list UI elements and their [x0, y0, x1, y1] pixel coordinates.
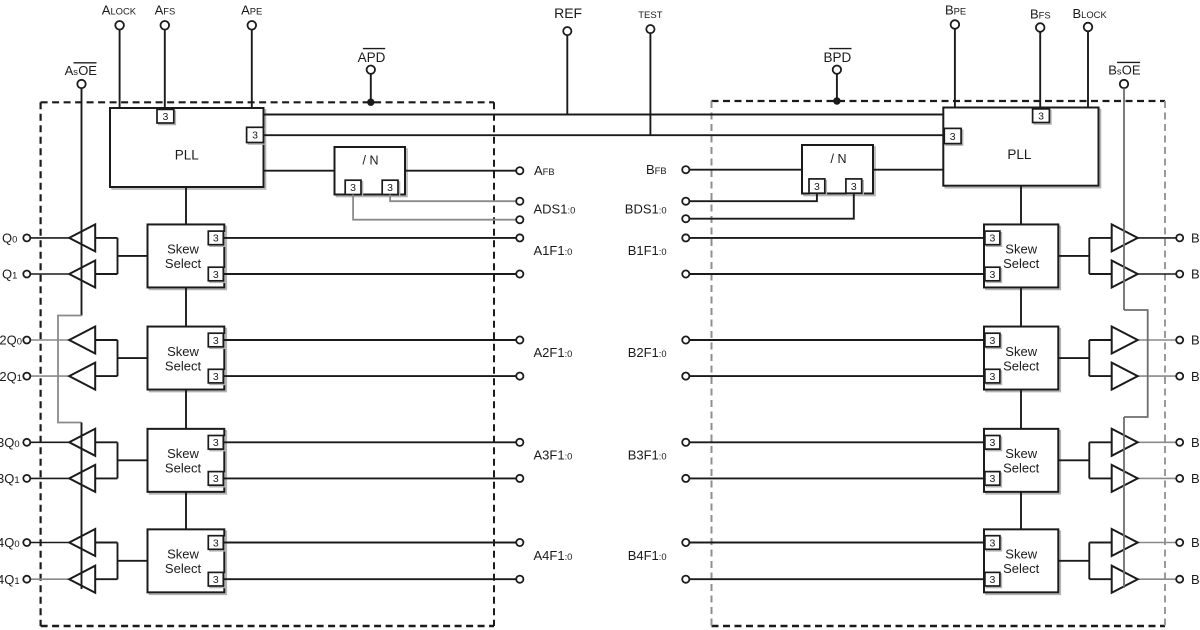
wire output A2Q1: [30, 375, 69, 377]
svg-text:Skew: Skew: [167, 344, 199, 359]
bus width marker 3 on PLL B left: [946, 130, 963, 145]
svg-text:4Q1: 4Q1: [0, 572, 20, 587]
svg-text:/ N: / N: [363, 154, 379, 168]
bus width marker 3 on /N B bottom left: [811, 181, 827, 195]
svg-text:3: 3: [950, 131, 956, 143]
svg-text:B4Q1: B4Q1: [1191, 572, 1200, 587]
svg-text:3: 3: [989, 371, 995, 383]
svg-text:A4F1:0: A4F1:0: [534, 548, 573, 563]
buffer A1 out1: [69, 261, 95, 288]
svg-text:3: 3: [989, 335, 995, 347]
skew select block B1: [986, 226, 1060, 289]
wire PLL A to divider: [264, 170, 335, 172]
pin A3Q0: [23, 439, 30, 446]
dashed box A (left device outline): [41, 102, 494, 626]
svg-text:3: 3: [989, 269, 995, 281]
pin BPE: [945, 3, 966, 108]
svg-text:Skew: Skew: [1005, 242, 1037, 257]
svg-text:3: 3: [1038, 111, 1044, 123]
wire B1F bit1: [689, 237, 984, 239]
wire B2F bit0: [689, 375, 984, 377]
wire skew A3 to skew A4: [185, 492, 187, 529]
pin A3F1: [516, 439, 523, 446]
svg-text:B4F1:0: B4F1:0: [628, 548, 667, 563]
svg-text:3: 3: [989, 233, 995, 245]
bus width marker 3 on /N A bottom right: [384, 182, 400, 196]
svg-text:Skew: Skew: [167, 242, 199, 257]
wire BsOE enable line upper: [1123, 88, 1125, 310]
svg-text:/ N: / N: [831, 152, 847, 166]
svg-text:3Q1: 3Q1: [0, 471, 20, 486]
pin TEST: [638, 10, 662, 33]
wire output A3Q0: [30, 441, 69, 443]
pin ADS1: [516, 198, 523, 205]
svg-text:3: 3: [213, 437, 219, 449]
buffer B2 out1: [1112, 363, 1138, 390]
svg-text:Select: Select: [1003, 561, 1040, 576]
pin BFS: [1030, 7, 1051, 109]
bus width marker 3 on skew A4 top: [210, 537, 225, 551]
bus width marker 3 on /N A bottom left: [347, 182, 363, 196]
bus width marker 3 on PLL A top: [159, 111, 176, 125]
wire AsOE enable line upper: [81, 88, 83, 315]
wire output B1Q1: [1138, 273, 1177, 275]
pin B1F1: [682, 234, 689, 241]
buffer A4 out0: [69, 529, 95, 556]
buffer A3 out1: [69, 465, 95, 492]
buffer B4 out0: [1112, 529, 1138, 556]
buffer B1 out1: [1112, 261, 1138, 288]
bus width marker 3 on skew B1 top: [987, 233, 1002, 247]
svg-text:B3Q1: B3Q1: [1191, 471, 1200, 486]
pin AsOE: [65, 63, 98, 88]
pin APD with overline: [358, 49, 386, 74]
svg-text:3: 3: [213, 537, 219, 549]
pin A1F0: [516, 270, 523, 277]
buffer B3 out0: [1112, 429, 1138, 456]
wire A4F bit1: [223, 542, 516, 544]
wire skew B4 to buffer bracket: [1058, 543, 1111, 580]
pin B3Q1: [1176, 475, 1183, 482]
svg-text:TEST: TEST: [638, 10, 662, 21]
divider block /N A: [337, 149, 408, 197]
bus width marker 3 on skew B4 top: [987, 537, 1002, 551]
pin A4Q1: [23, 576, 30, 583]
wire AsOE enable line lower: [81, 423, 83, 590]
svg-text:BDS1:0: BDS1:0: [625, 202, 667, 217]
pin BDS0: [682, 215, 689, 222]
wire output B4Q1: [1138, 578, 1177, 580]
wire A2F bit0: [223, 375, 516, 377]
pin A2Q0: [23, 337, 30, 344]
op block PLL A: [112, 110, 266, 189]
buffer A2 out0: [69, 327, 95, 354]
wire B4F bit0: [689, 578, 984, 580]
pin AFB: [516, 163, 554, 178]
wire A4F bit0: [223, 578, 516, 580]
wire PLL A to skew select 1: [185, 187, 187, 224]
pin BDS1: [682, 198, 689, 205]
bus width marker 3 on skew A1 top: [210, 233, 225, 247]
pin A2F0: [516, 373, 523, 380]
svg-text:3: 3: [989, 537, 995, 549]
wire B4F bit1: [689, 542, 984, 544]
wire ADS bit1 (gray): [390, 195, 516, 202]
svg-text:3: 3: [252, 130, 258, 142]
svg-text:AFB: AFB: [534, 163, 555, 178]
wire divider A to AFB pin: [405, 170, 516, 172]
wire output B3Q0: [1138, 441, 1177, 443]
wire skew A2 to buffer bracket: [95, 340, 147, 376]
bus width marker 3 on skew A1 bottom: [210, 269, 225, 283]
skew select block A2: [150, 329, 227, 392]
buffer B4 out1: [1112, 566, 1138, 593]
svg-text:Select: Select: [1003, 256, 1040, 271]
svg-text:3: 3: [989, 437, 995, 449]
wire PLL B to skew select 5: [1020, 186, 1022, 225]
pin A3Q1: [23, 475, 30, 482]
wire B3F bit1: [689, 441, 984, 443]
wire skew A3 to buffer bracket: [95, 442, 147, 478]
pin A3F0: [516, 475, 523, 482]
pin BFB: [646, 162, 689, 177]
svg-text:3: 3: [350, 182, 356, 194]
wire output B2Q0: [1138, 339, 1177, 341]
pin AFS: [155, 2, 176, 109]
pin B1Q1: [1176, 271, 1183, 278]
divider block /N B: [804, 147, 875, 196]
svg-text:Bs: Bs: [1108, 63, 1122, 78]
buffer A2 out1: [69, 363, 95, 390]
svg-text:B4Q0: B4Q0: [1191, 535, 1200, 550]
svg-text:AFS: AFS: [155, 2, 176, 17]
skew select block A4: [150, 531, 227, 594]
bus width marker 3 on skew B3 top: [987, 437, 1002, 451]
svg-text:A1F1:0: A1F1:0: [534, 243, 573, 258]
pin REF: [554, 5, 582, 35]
svg-text:3: 3: [851, 181, 857, 193]
svg-text:BPD: BPD: [824, 50, 852, 65]
svg-text:B3F1:0: B3F1:0: [628, 447, 667, 462]
buffer B3 out1: [1112, 465, 1138, 492]
svg-text:3: 3: [213, 574, 219, 586]
svg-text:3: 3: [213, 371, 219, 383]
wire A1F bit0: [223, 273, 516, 275]
svg-text:PLL: PLL: [175, 147, 200, 162]
wire skew A2 to skew A3: [185, 390, 187, 429]
svg-text:Select: Select: [165, 256, 202, 271]
pin BLOCK: [1073, 6, 1108, 108]
wire A1F bit1: [223, 237, 516, 239]
pin B3F1: [682, 439, 689, 446]
bus width marker 3 on skew B2 bottom: [987, 371, 1002, 385]
pin B3Q0: [1176, 439, 1183, 446]
skew select block B3: [986, 431, 1060, 494]
pin BPD with overline: [824, 49, 852, 74]
svg-text:Skew: Skew: [1005, 547, 1037, 562]
buffer A3 out0: [69, 429, 95, 456]
wire output B2Q1: [1138, 375, 1177, 377]
pin APE: [241, 2, 262, 108]
svg-text:Skew: Skew: [1005, 344, 1037, 359]
pin B4F1: [682, 539, 689, 546]
svg-text:APD: APD: [358, 50, 386, 65]
wire A2F bit1: [223, 339, 516, 341]
pin A2F1: [516, 336, 523, 343]
svg-text:Q0: Q0: [2, 231, 17, 246]
wire output A3Q1: [30, 477, 69, 479]
skew select block B2: [986, 329, 1060, 392]
wire output A4Q1: [30, 578, 69, 580]
wire skew B1 to skew B2: [1020, 287, 1022, 326]
svg-text:REF: REF: [554, 5, 582, 21]
svg-text:3Q0: 3Q0: [0, 435, 20, 450]
pin A2Q1: [23, 373, 30, 380]
svg-text:As: As: [65, 63, 79, 78]
svg-text:ALOCK: ALOCK: [102, 2, 137, 17]
wire skew A1 to buffer bracket: [95, 238, 147, 274]
wire output A1Q0: [30, 237, 69, 239]
svg-text:Skew: Skew: [1005, 446, 1037, 461]
wire B1F bit0: [689, 273, 984, 275]
svg-text:OE: OE: [78, 63, 97, 78]
svg-text:PLL: PLL: [1007, 147, 1032, 162]
skew select block A3: [150, 431, 227, 494]
wire B2F bit1: [689, 339, 984, 341]
svg-text:BPE: BPE: [945, 3, 966, 18]
svg-text:OE: OE: [1122, 63, 1141, 78]
bus width marker 3 on PLL B top: [1034, 111, 1051, 125]
pin B2F0: [682, 373, 689, 380]
svg-text:B2Q0: B2Q0: [1191, 333, 1200, 348]
wire ADS bit0 (gray): [353, 195, 516, 220]
buffer A1 out0: [69, 224, 95, 251]
svg-text:Q1: Q1: [2, 267, 17, 282]
svg-text:2Q1: 2Q1: [0, 369, 22, 384]
svg-text:B2F1:0: B2F1:0: [628, 345, 667, 360]
pin B2Q0: [1176, 337, 1183, 344]
pin A1Q0: [23, 234, 30, 241]
bus width marker 3 on skew B3 bottom: [987, 473, 1002, 487]
svg-text:BFB: BFB: [646, 162, 667, 177]
svg-text:Skew: Skew: [167, 446, 199, 461]
bus width marker 3 on /N B bottom right: [848, 181, 864, 195]
pin B4Q0: [1176, 539, 1183, 546]
wire BDS bit0: [689, 194, 853, 219]
svg-text:APE: APE: [241, 2, 262, 17]
wire A3F bit0: [223, 477, 516, 479]
wire BFB pin to divider B: [689, 169, 802, 171]
svg-text:Select: Select: [1003, 358, 1040, 373]
pin ADS0: [516, 216, 523, 223]
pin B2F1: [682, 336, 689, 343]
svg-text:A3F1:0: A3F1:0: [534, 447, 573, 462]
svg-text:B1F1:0: B1F1:0: [628, 243, 667, 258]
wire output B3Q1: [1138, 477, 1177, 479]
svg-text:3: 3: [213, 473, 219, 485]
dashed box B (right device outline): [712, 101, 1166, 626]
svg-text:3: 3: [989, 574, 995, 586]
svg-text:B1Q1: B1Q1: [1191, 267, 1200, 282]
pin BsOE: [1108, 62, 1141, 88]
wire AsOE enable jog (gray): [58, 316, 82, 423]
pin B1F0: [682, 270, 689, 277]
pin A1Q1: [23, 271, 30, 278]
wire B3F bit0: [689, 477, 984, 479]
pin A4F1: [516, 539, 523, 546]
bus width marker 3 on skew A3 top: [210, 437, 225, 451]
svg-text:B1Q0: B1Q0: [1191, 231, 1200, 246]
bus width marker 3 on PLL A right: [248, 129, 265, 144]
wire REF drop: [566, 35, 568, 114]
wire skew B1 to buffer bracket: [1058, 238, 1111, 274]
svg-text:B2Q1: B2Q1: [1191, 369, 1200, 384]
svg-text:3: 3: [162, 111, 168, 123]
bus width marker 3 on skew A3 bottom: [210, 473, 225, 487]
buffer B1 out0: [1112, 224, 1138, 251]
svg-text:3: 3: [989, 473, 995, 485]
svg-text:Select: Select: [165, 561, 202, 576]
svg-text:Select: Select: [1003, 461, 1040, 476]
bus width marker 3 on skew A2 top: [210, 335, 225, 349]
buffer A4 out1: [69, 566, 95, 593]
pin A1F1: [516, 234, 523, 241]
wire divider B to PLL B: [873, 169, 943, 171]
wire skew B2 to buffer bracket: [1058, 340, 1111, 376]
wire output B4Q0: [1138, 542, 1177, 544]
wire output A2Q0: [30, 339, 69, 341]
wire TEST bus (second): [264, 134, 945, 136]
pin B3F0: [682, 475, 689, 482]
wire skew B2 to skew B3: [1020, 390, 1022, 429]
svg-text:2Q0: 2Q0: [0, 333, 22, 348]
junction dot BPD: [833, 97, 840, 104]
skew select block A1: [150, 226, 227, 289]
pin B1Q0: [1176, 234, 1183, 241]
svg-text:Select: Select: [165, 358, 202, 373]
svg-text:A2F1:0: A2F1:0: [534, 345, 573, 360]
pin A4Q0: [23, 539, 30, 546]
wire output B1Q0: [1138, 237, 1177, 239]
bus width marker 3 on skew A4 bottom: [210, 574, 225, 588]
wire APD to dashed border: [370, 74, 372, 101]
svg-text:BLOCK: BLOCK: [1073, 6, 1108, 21]
bus width marker 3 on skew B2 top: [987, 335, 1002, 349]
op block PLL B: [945, 110, 1100, 188]
wire output A1Q1: [30, 273, 69, 275]
svg-text:3: 3: [814, 181, 820, 193]
bus width marker 3 on skew A2 bottom: [210, 371, 225, 385]
pin ALOCK: [102, 2, 137, 108]
wire BsOE enable line lower: [1123, 417, 1125, 588]
junction dot APD: [367, 99, 374, 106]
svg-text:3: 3: [213, 335, 219, 347]
wire TEST drop: [649, 33, 651, 135]
wire BsOE enable jog: [1124, 310, 1148, 417]
pin B4F0: [682, 576, 689, 583]
buffer B2 out0: [1112, 327, 1138, 354]
wire skew B3 to skew B4: [1020, 492, 1022, 529]
bus width marker 3 on skew B4 bottom: [987, 574, 1002, 588]
svg-text:ADS1:0: ADS1:0: [534, 202, 576, 217]
wire BDS bit1: [689, 194, 817, 202]
bus width marker 3 on skew B1 bottom: [987, 269, 1002, 283]
svg-text:3: 3: [213, 269, 219, 281]
wire skew A1 to skew A2: [185, 287, 187, 326]
svg-text:Skew: Skew: [167, 547, 199, 562]
wire skew B3 to buffer bracket: [1058, 442, 1111, 478]
svg-text:4Q0: 4Q0: [0, 535, 20, 550]
svg-text:Select: Select: [165, 461, 202, 476]
wire A3F bit1: [223, 441, 516, 443]
wire output A4Q0: [30, 542, 69, 544]
wire skew A4 to buffer bracket: [95, 543, 147, 580]
svg-text:3: 3: [213, 233, 219, 245]
wire REF bus (top): [264, 114, 944, 116]
pin A4F0: [516, 576, 523, 583]
wire BPD to dashed border: [836, 74, 838, 100]
pin B2Q1: [1176, 373, 1183, 380]
svg-text:BFS: BFS: [1030, 7, 1051, 22]
pin B4Q1: [1176, 576, 1183, 583]
svg-text:3: 3: [387, 182, 393, 194]
skew select block B4: [986, 531, 1060, 594]
svg-text:B3Q0: B3Q0: [1191, 435, 1200, 450]
